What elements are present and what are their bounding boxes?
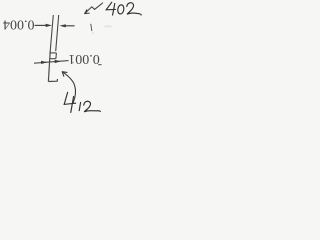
dimension leader line left of gap (35, 24, 47, 26)
part outline: notch right edge (55, 53, 58, 59)
faint scan smudge near 402 (104, 25, 113, 27)
leader arrow to 402 (zigzag swoosh) (85, 3, 103, 14)
part outline: left wall (48, 51, 50, 82)
part outline: notch bottom edge (50, 58, 56, 60)
part outline: bottom foot with upturn (48, 79, 57, 82)
left extension line (50, 15, 53, 51)
arrowhead on 0.001 line (left) (41, 61, 47, 64)
part outline: notch top edge (50, 52, 57, 54)
handwritten numeral 412: digit 2 (84, 101, 101, 111)
minus dash after 0.001 (98, 64, 101, 66)
handwritten numeral 412: digit 1 (79, 102, 80, 110)
arrowhead pointing left at right extension line (59, 24, 65, 27)
leader arrow to 412 (curved) (62, 72, 75, 103)
dimension leader line right of gap (65, 25, 74, 27)
arrowhead on 0.001 line (right) (55, 60, 61, 63)
handwritten numeral 402: digit 0 (117, 4, 125, 14)
tick mark below 402 (91, 24, 92, 30)
arrowhead pointing right at left extension line (46, 24, 52, 27)
faint scan dot (92, 32, 94, 34)
handwritten numeral 402: digit 2 (127, 3, 141, 15)
svg-text:0.001: 0.001 (68, 51, 100, 66)
right extension line (56, 15, 59, 51)
handwritten numeral 412: digit 4 (64, 92, 75, 112)
dimension line 0.001 (34, 61, 69, 64)
svg-text:0.004: 0.004 (3, 17, 35, 32)
handwritten numeral 402: digit 4 (106, 2, 115, 15)
dimension text 0.001 (rotated 180) (68, 51, 100, 66)
dimension text 0.004 (rotated 180) (3, 17, 35, 32)
